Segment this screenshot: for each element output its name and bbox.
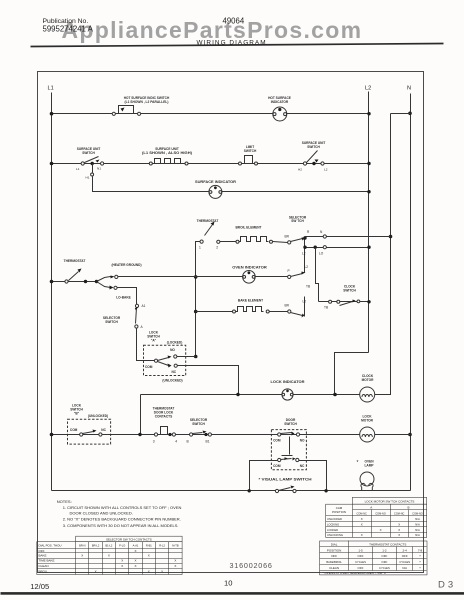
svg-text:R: R [307,230,310,234]
svg-text:NOTES:: NOTES: [57,499,72,504]
svg-text:D3: D3 [438,579,456,590]
svg-text:X: X [361,517,363,521]
part number 316002066 [230,561,273,570]
svg-text:MOTOR: MOTOR [361,419,374,423]
svg-text:A: A [370,506,372,510]
svg-text:(L1 SHOWN , L2 PARALLEL): (L1 SHOWN , L2 PARALLEL) [125,100,169,104]
table thermostat contacts [320,541,428,575]
svg-text:R-L2: R-L2 [159,544,165,548]
svg-text:B: B [187,440,190,444]
svg-text:NO: NO [170,348,175,352]
svg-text:X: X [398,522,400,526]
svg-text:X: X [174,564,176,568]
svg-text:R-B1: R-B1 [146,544,152,548]
lamp oven lamp [357,460,375,491]
bus L2 vertical wire [368,92,370,353]
svg-text:(HEATER GROUND): (HEATER GROUND) [111,263,141,267]
svg-text:49064: 49064 [223,16,245,25]
svg-text:COM: COM [273,438,281,442]
svg-text:OFF: OFF [358,554,364,558]
wire row1 L1 to L2 [50,112,371,116]
svg-text:X: X [81,554,83,558]
svg-text:1-5: 1-5 [358,548,363,552]
selector switch A1-A [103,304,146,329]
svg-text:SELECTOR SW TCH CONTACTS: SELECTOR SW TCH CONTACTS [106,538,152,542]
svg-text:TB: TB [306,285,310,289]
svg-text:L2: L2 [365,86,371,92]
wire oven lamp row [52,489,411,492]
svg-text:SWITCH: SWITCH [82,151,95,155]
wire door fork upper to heater terminal [97,263,196,281]
svg-text:UNLOCKED: UNLOCKED [327,517,342,521]
switch lock switch A [137,329,186,383]
watermark AppliancePartsPros.com [62,17,363,43]
svg-text:NO: NO [300,438,305,442]
node L2 [365,86,371,92]
svg-text:COM-NC: COM-NC [394,512,404,515]
bus N vertical wire [410,94,412,491]
wire lock row left riser [140,395,142,435]
node N [407,86,411,92]
switch selector switch B-B1 [187,418,212,443]
svg-text:N: N [320,230,323,234]
switch surface unit switch left [76,147,104,171]
wire lock A NC to lock indicator row [178,366,239,395]
bus L1 vertical wire [51,93,53,491]
svg-text:2: 2 [216,246,218,250]
svg-text:COM-NC: COM-NC [357,512,367,515]
svg-text:L2: L2 [324,168,328,172]
svg-text:LOCKING: LOCKING [327,522,339,526]
footer date [30,582,49,591]
motor lock motor [360,415,375,442]
svg-text:L1: L1 [76,167,80,171]
wire main bottom row [50,433,411,437]
svg-text:SWITCH: SWITCH [105,320,118,324]
svg-text:"A": "A" [151,339,157,343]
svg-text:DOOR CLOSED AND UNLOCKED.: DOOR CLOSED AND UNLOCKED. [70,510,133,515]
svg-text:2. NO "X" DENOTES BACKGUARD C: 2. NO "X" DENOTES BACKGUARD CONNECTOR PI… [63,517,181,522]
svg-text:"B": "B" [74,412,80,416]
svg-text:B1: B1 [206,440,210,444]
svg-text:N: N [407,86,411,92]
svg-text:INDICATOR: INDICATOR [271,100,289,104]
svg-text:DIAL: DIAL [331,543,338,547]
svg-text:NC: NC [101,428,106,432]
svg-text:X: X [161,570,163,574]
svg-text:*: * [419,555,421,559]
svg-text:LAMP: LAMP [364,464,374,468]
indicator lamp hot surface indicator [268,96,291,121]
svg-text:X: X [174,559,176,563]
svg-text:3: 3 [153,440,155,444]
switch thermostat door lock contacts [153,407,178,444]
svg-text:MOTOR: MOTOR [362,378,375,382]
svg-text:X: X [108,554,110,558]
header underline [31,44,444,47]
svg-text:OFF: OFF [39,549,45,553]
svg-text:OFF: OFF [381,554,387,558]
table selector switch contacts [37,536,183,574]
svg-text:(LOCKED): (LOCKED) [167,341,183,345]
svg-text:(UNLOCKED): (UNLOCKED) [162,379,182,383]
svg-text:N/A: N/A [415,533,420,537]
motor clock motor [360,374,375,402]
svg-text:X: X [121,559,123,563]
svg-text:LO-BAKE: LO-BAKE [116,295,131,299]
svg-text:B1-L2: B1-L2 [105,544,112,548]
selector switch main column [285,215,391,301]
svg-text:CYCLES: CYCLES [355,560,366,564]
svg-text:BAKE ELEMENT: BAKE ELEMENT [238,298,263,302]
svg-text:LOCKED: LOCKED [327,528,338,532]
svg-text:SWITCH: SWITCH [284,422,297,426]
bottom rule [1,592,464,595]
selector contact P [288,265,309,279]
svg-text:OFF: OFF [331,554,337,558]
svg-text:7-8: 7-8 [418,548,423,552]
svg-text:POSITION: POSITION [332,510,346,514]
svg-text:SWITCH: SWITCH [343,289,356,293]
svg-text:P-LO: P-LO [119,544,125,548]
svg-text:X: X [148,554,150,558]
svg-text:TB: TB [324,306,328,310]
footer mark D3 [438,579,456,590]
svg-text:*: * [419,560,421,564]
junction lock motor N [408,433,412,437]
junction selector N line [389,235,393,239]
switch clock switch [319,285,371,310]
svg-text:3. COMPONENTS WITH 30 DO NOT: 3. COMPONENTS WITH 30 DO NOT APPEAR IN A… [63,523,179,528]
selector contact BR bake [285,297,307,318]
svg-text:X: X [134,564,136,568]
svg-text:N/A: N/A [415,528,420,532]
svg-text:A1: A1 [142,304,146,308]
wire L2 jog to lock indicator row [335,353,369,395]
notes text [57,499,182,528]
table lock motor switch contacts [326,497,427,537]
switch visual lamp switch [259,477,313,492]
switch limit switch [239,145,258,165]
publication number [43,18,94,34]
svg-text:X: X [121,564,123,568]
svg-text:1: 1 [199,246,201,250]
svg-text:COM: COM [273,464,281,468]
resistor broil element [236,226,288,244]
svg-text:316002066: 316002066 [230,561,273,570]
svg-text:CYCLES: CYCLES [379,566,390,570]
svg-text:UNLOCKING: UNLOCKING [327,533,343,537]
svg-text:THERMOSTAT: THERMOSTAT [197,219,219,223]
svg-text:5995274241 A: 5995274241 A [43,24,94,33]
svg-text:LO: LO [319,252,324,256]
svg-text:SW TCH: SW TCH [291,219,304,223]
svg-text:X: X [148,570,150,574]
switch hot surface indicator switch [112,96,170,115]
part number 49064 [223,16,245,25]
wire surface indicator tap [86,164,371,194]
svg-text:N/A: N/A [402,566,407,570]
svg-text:* OPENS AT OVEN TEMPERATURES: * OPENS AT OVEN TEMPERATURES > 550° F [323,571,387,575]
switch surface unit switch right [298,141,328,171]
node L1 [48,86,54,92]
svg-text:SWITCH: SWITCH [307,145,320,149]
svg-text:X: X [134,559,136,563]
switch lock switch B [68,404,111,444]
svg-text:TIME BAKE: TIME BAKE [39,559,55,563]
thermostat lower left [50,259,99,283]
wire row2 L1 to L2 [50,162,371,166]
border frame [38,72,424,573]
svg-text:OFF: OFF [402,554,408,558]
svg-text:COM: COM [145,365,153,369]
svg-text:* VISUAL LAMP SWITCH: * VISUAL LAMP SWITCH [259,477,313,481]
svg-text:X: X [95,570,97,574]
switch door switch [271,418,306,470]
svg-text:NC: NC [172,370,177,374]
svg-text:OVEN INDICATOR: OVEN INDICATOR [232,266,267,270]
indicator lamp surface indicator [195,180,237,198]
svg-text:LOCK MOTOR SW TCH CONTACTS: LOCK MOTOR SW TCH CONTACTS [365,499,415,503]
svg-text:H2: H2 [298,168,302,172]
footer page number [224,579,232,588]
svg-text:N/A: N/A [415,517,420,521]
svg-text:L2: L2 [303,300,307,304]
svg-text:2-4: 2-4 [403,548,408,552]
svg-text:X: X [134,549,136,553]
svg-text:CLEAN: CLEAN [329,566,339,570]
svg-text:LOCK INDICATOR: LOCK INDICATOR [271,380,306,384]
svg-text:CONTACTS: CONTACTS [155,415,172,419]
wire thermostat terminal1 drop [194,242,198,359]
svg-text:A: A [141,325,144,329]
svg-text:BR: BR [285,235,290,239]
svg-text:THERMOSTAT CONTACTS: THERMOSTAT CONTACTS [369,543,406,547]
wire lock A NO to node [177,356,196,358]
svg-text:COM-NO: COM-NO [412,512,422,515]
wire N jog [391,113,411,115]
svg-text:*: * [419,566,421,570]
svg-text:SURFACE INDICATOR: SURFACE INDICATOR [195,180,237,184]
svg-text:SWITCH: SWITCH [244,149,257,153]
svg-text:BAKE: BAKE [39,554,47,558]
svg-text:X: X [361,533,363,537]
wire door switch lower com [250,461,278,491]
svg-text:SWITCH: SWITCH [192,422,205,426]
wire door fork lower [97,282,137,305]
junction N top [408,112,412,116]
svg-text:CLEAN: CLEAN [39,564,49,568]
svg-text:B: B [407,506,409,510]
svg-text:1. CIRCUIT SHOWN WITH ALL CON: 1. CIRCUIT SHOWN WITH ALL CONTROLS SET T… [63,505,182,510]
svg-text:N/A: N/A [415,522,420,526]
svg-text:COM-NO: COM-NO [375,512,385,515]
svg-text:N1: N1 [97,167,101,171]
svg-text:P: P [288,269,290,273]
title WIRING DIAGRAM [197,40,267,47]
svg-text:OFF: OFF [358,566,364,570]
wire door switch lower nc [299,461,327,491]
svg-text:X: X [398,533,400,537]
svg-text:X: X [361,522,363,526]
indicator lamp oven indicator [196,266,290,283]
resistor surface unit element [142,147,192,165]
svg-text:BR: BR [285,304,290,308]
svg-text:CYCLES: CYCLES [399,560,410,564]
svg-text:A-A1: A-A1 [133,544,139,548]
svg-text:*: * [357,460,359,466]
resistor bake element [196,298,288,313]
svg-text:DIAL POS. THOU: DIAL POS. THOU [39,544,62,548]
svg-text:1-2: 1-2 [382,548,387,552]
svg-text:OFF: OFF [381,560,387,564]
svg-text:L2: L2 [302,252,306,256]
svg-text:L2: L2 [305,265,309,269]
svg-text:X: X [380,528,382,532]
svg-text:POSITION: POSITION [327,548,341,552]
svg-text:NC: NC [300,464,305,468]
wire lock indicator row [141,393,360,397]
thermostat oven [197,219,238,250]
svg-text:THERMOSTAT: THERMOSTAT [64,259,86,263]
svg-text:X: X [398,528,400,532]
svg-text:(L1 SHOWN , ALSO HIGH): (L1 SHOWN , ALSO HIGH) [142,151,192,155]
svg-text:12/05: 12/05 [30,582,49,591]
svg-text:H1: H1 [86,175,90,179]
svg-text:L1: L1 [48,86,54,92]
svg-text:BROIL ELEMENT: BROIL ELEMENT [236,226,262,230]
wire clock-motor N riser [375,114,391,395]
svg-text:4: 4 [175,440,177,444]
svg-text:M-TB: M-TB [172,544,179,548]
svg-text:BROIL: BROIL [39,570,48,574]
svg-text:(UNLOCKED): (UNLOCKED) [88,414,108,418]
svg-text:COM: COM [70,428,78,432]
svg-text:BAKE/BROIL: BAKE/BROIL [326,560,342,564]
indicator lamp lock indicator [271,380,306,400]
svg-text:BR-N: BR-N [79,544,85,548]
svg-text:10: 10 [224,579,232,588]
svg-text:BR-L2: BR-L2 [92,544,100,548]
